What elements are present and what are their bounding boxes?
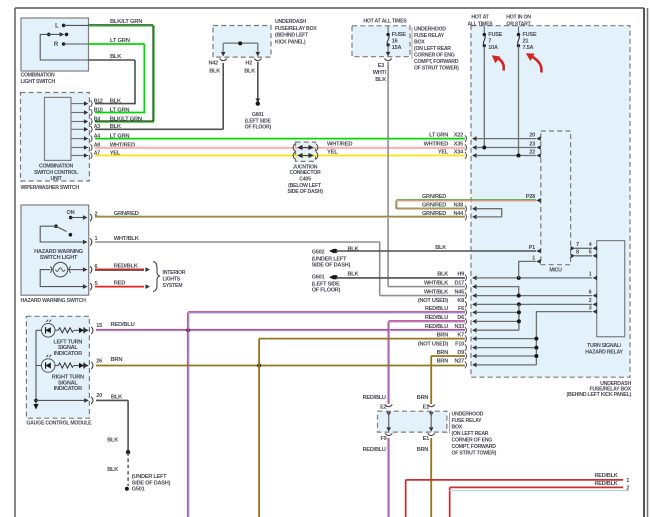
- combination light switch box: [21, 18, 89, 71]
- connector X34 YEL row: [465, 152, 467, 159]
- control unit pin A3 (BLK): [71, 128, 84, 130]
- svg-text:GAUGE CONTROL MODULE: GAUGE CONTROL MODULE: [26, 421, 92, 427]
- wire H9 row to relay pin 1: [476, 277, 592, 279]
- svg-text:10A: 10A: [488, 45, 498, 51]
- svg-text:COMPT, FORWARD: COMPT, FORWARD: [452, 444, 497, 450]
- wire relay pin 3 to BRN net: [536, 312, 592, 365]
- gauge control module pin 15: [91, 327, 93, 334]
- svg-text:BLK: BLK: [107, 467, 118, 473]
- svg-text:FUSE RELAY: FUSE RELAY: [414, 33, 445, 39]
- wire BLK H2 to ground G601: [257, 62, 259, 99]
- svg-text:FUSE/RELAY BOX: FUSE/RELAY BOX: [275, 26, 317, 32]
- interior lights system brace: [153, 262, 160, 292]
- red annotation arrow to fuse 7: [499, 59, 504, 71]
- wire MICU pin 7 to relay pin 4: [575, 247, 592, 249]
- wire N27 row: [476, 364, 536, 366]
- svg-text:BRN: BRN: [437, 332, 449, 338]
- svg-text:26: 26: [96, 358, 102, 364]
- svg-text:BLK: BLK: [110, 54, 122, 60]
- svg-text:N42: N42: [208, 61, 218, 67]
- svg-text:(BEHIND LEFT: (BEHIND LEFT: [275, 33, 309, 39]
- MICU pin 23: [536, 145, 541, 150]
- svg-text:C405: C405: [299, 177, 311, 183]
- hazard switch feed: [40, 226, 83, 242]
- svg-text:22: 22: [529, 150, 535, 156]
- svg-text:K7: K7: [457, 332, 464, 338]
- wire BLK G601 to H9: [336, 277, 465, 279]
- control unit pin A7 (YEL): [71, 155, 84, 157]
- wire RED/BLU D6 to underhood box E2: [389, 320, 465, 322]
- svg-text:YEL: YEL: [327, 149, 338, 155]
- svg-text:GRN/RED: GRN/RED: [114, 211, 139, 217]
- svg-text:WHT/: WHT/: [373, 70, 387, 76]
- underdash fuse/relay box (top middle dashed): [213, 26, 271, 58]
- svg-text:2: 2: [95, 212, 98, 218]
- fuse 21 7.5A: [518, 26, 520, 34]
- connector E1 bottom: [428, 433, 435, 435]
- svg-text:BRN: BRN: [437, 350, 449, 356]
- svg-text:HAZARD RELAY: HAZARD RELAY: [585, 350, 623, 356]
- MICU pin P28: [536, 198, 541, 203]
- wire RED/BLK 2: [450, 486, 624, 488]
- svg-text:5: 5: [589, 250, 592, 256]
- wire WHT/RED A8 to X35: [95, 146, 465, 148]
- red annotation arrow to fuse 21: [532, 57, 542, 73]
- svg-text:H2: H2: [245, 61, 252, 67]
- svg-text:BLK: BLK: [348, 272, 359, 278]
- gauge control module pin 20: [91, 397, 93, 404]
- svg-text:BRN: BRN: [437, 359, 449, 365]
- wire N33 row: [476, 329, 519, 331]
- wire RED/BLU F9 to front lights: [387, 438, 389, 517]
- gauge control module pin 26: [91, 362, 93, 369]
- connector H9 BLK row: [465, 275, 467, 282]
- svg-text:SIDE OF DASH): SIDE OF DASH): [312, 263, 351, 269]
- hazard switch pin 5: [90, 283, 92, 290]
- svg-text:20: 20: [96, 393, 102, 399]
- MICU pin P1: [536, 249, 541, 254]
- svg-text:BLK: BLK: [437, 272, 448, 278]
- connector F10 (NOT USED) row: [465, 344, 467, 351]
- gauge control module dashed box: [26, 316, 89, 418]
- svg-text:FUSE: FUSE: [523, 32, 537, 38]
- svg-text:P1: P1: [529, 245, 535, 251]
- svg-text:BOX: BOX: [414, 40, 425, 46]
- svg-text:7: 7: [488, 39, 491, 45]
- svg-text:HOT IN ON: HOT IN ON: [506, 15, 531, 21]
- svg-text:L: L: [55, 23, 59, 29]
- svg-text:OF STRUT TOWER): OF STRUT TOWER): [452, 451, 497, 457]
- control unit pin A4 (LT GRN): [71, 138, 84, 140]
- svg-text:B10: B10: [94, 107, 103, 113]
- svg-text:20: 20: [529, 133, 535, 139]
- svg-text:LIGHTS: LIGHTS: [163, 277, 181, 283]
- wire row 22 inside box: [476, 155, 536, 157]
- svg-text:OF FLOOR): OF FLOOR): [245, 125, 272, 131]
- svg-text:7.5A: 7.5A: [523, 45, 534, 51]
- svg-text:N27: N27: [454, 359, 464, 365]
- wire GRN/RED hazard pin2 to N44: [95, 215, 465, 217]
- wire K7 row: [476, 338, 536, 340]
- wire D17 to N45 jumper: [476, 287, 519, 296]
- svg-text:RED/BLU: RED/BLU: [363, 447, 386, 453]
- svg-text:G502: G502: [312, 250, 325, 256]
- relay pin 3: [593, 309, 598, 314]
- svg-text:SWITCH LIGHT: SWITCH LIGHT: [40, 255, 78, 261]
- wire RED/BLK 1: [406, 479, 624, 481]
- svg-text:N38: N38: [453, 203, 463, 209]
- MICU pin 22: [536, 153, 541, 158]
- relay pin 6: [593, 293, 598, 298]
- svg-text:INTERIOR: INTERIOR: [163, 270, 186, 276]
- svg-text:(NOT USED): (NOT USED): [418, 298, 449, 304]
- svg-text:B12: B12: [94, 98, 103, 104]
- MICU box U1: [541, 131, 571, 265]
- svg-text:UNDERHOOD: UNDERHOOD: [452, 412, 484, 418]
- svg-text:SIDE OF DASH): SIDE OF DASH): [132, 480, 171, 486]
- wire LT GRN light switch R to B10: [89, 43, 145, 45]
- fuse 16 15A: [387, 26, 389, 35]
- svg-text:GRN/RED: GRN/RED: [422, 211, 446, 217]
- svg-text:(UNDER LEFT: (UNDER LEFT: [132, 474, 167, 480]
- wire D9 row: [476, 355, 536, 357]
- gauge module ground bus: [35, 330, 37, 404]
- svg-text:WHT/RED: WHT/RED: [327, 141, 352, 147]
- turn signal/hazard relay box: [597, 241, 625, 337]
- svg-text:BLK: BLK: [244, 68, 255, 74]
- svg-text:TURN SIGNAL/: TURN SIGNAL/: [587, 343, 622, 349]
- svg-text:BLK: BLK: [375, 77, 386, 83]
- connector F9: [385, 433, 392, 435]
- wire RED/BLK to interior lights: [95, 268, 144, 270]
- svg-text:E1: E1: [423, 436, 429, 442]
- control unit pin B10 (LT GRN): [71, 112, 84, 114]
- svg-text:WHT/BLK: WHT/BLK: [114, 236, 140, 242]
- MICU pin 20: [536, 136, 541, 141]
- svg-text:ON: ON: [67, 210, 75, 216]
- svg-text:N45: N45: [454, 289, 464, 295]
- ground G601 floor: [256, 98, 261, 103]
- junction connector C405 contact row y=147.5: [293, 144, 295, 151]
- wire WHT/BLK hazard pin1 to N45: [95, 241, 380, 243]
- svg-text:(ON LEFT REAR: (ON LEFT REAR: [414, 46, 451, 52]
- svg-text:G601: G601: [252, 112, 264, 118]
- svg-text:1: 1: [626, 478, 629, 484]
- svg-text:HOT AT ALL TIMES: HOT AT ALL TIMES: [363, 19, 407, 25]
- connector D9 BRN row: [465, 353, 467, 360]
- wire LT GRN A4 to X22: [95, 138, 465, 140]
- wire N45 row to relay pin 6: [476, 295, 592, 297]
- svg-text:HAZARD WARNING SWITCH: HAZARD WARNING SWITCH: [21, 298, 87, 304]
- hazard switch pin 2: [90, 214, 92, 221]
- faint box edge bottom right: [450, 490, 629, 492]
- connector E3: [385, 59, 392, 61]
- connector X35 WHT/RED row: [465, 144, 467, 151]
- connector K8 (NOT USED) row: [465, 301, 467, 308]
- svg-text:BLK/LT GRN: BLK/LT GRN: [110, 19, 142, 25]
- svg-text:GRN/RED: GRN/RED: [422, 194, 446, 200]
- control unit pin B12 (BLK): [71, 103, 84, 105]
- svg-text:B4: B4: [94, 116, 100, 122]
- relay pin 1: [593, 276, 598, 281]
- connector F6 RED/BLU row: [465, 309, 467, 316]
- svg-text:15A: 15A: [392, 45, 402, 51]
- hazard switch lamp: [53, 262, 68, 277]
- light switch feed wire: [40, 34, 88, 60]
- svg-text:COMPT, FORWARD: COMPT, FORWARD: [414, 59, 459, 65]
- svg-text:BLK: BLK: [435, 245, 446, 251]
- svg-text:K8: K8: [457, 298, 464, 304]
- svg-text:UNDERHOOD: UNDERHOOD: [414, 27, 446, 33]
- svg-text:INDICATOR: INDICATOR: [54, 386, 83, 392]
- underhood fuse relay box (bottom dashed): [378, 411, 447, 432]
- wire BLK light switch to B12: [89, 59, 136, 61]
- svg-text:2: 2: [589, 298, 592, 304]
- svg-text:CONNECTOR: CONNECTOR: [289, 170, 321, 176]
- combination switch control unit dashed box (wiper/washer switch): [21, 93, 90, 182]
- svg-text:6: 6: [589, 289, 592, 295]
- svg-text:COMBINATION: COMBINATION: [21, 73, 56, 79]
- wire RED/BLU net vertical K8-F6-D6-N33: [518, 304, 520, 330]
- svg-text:F10: F10: [455, 341, 464, 347]
- wire D6 row: [476, 320, 519, 322]
- svg-text:SWITCH CONTROL: SWITCH CONTROL: [34, 170, 79, 176]
- wire RED/BLU gauge pin15 to N33: [96, 329, 465, 331]
- fuse 7 10A: [483, 26, 485, 34]
- svg-text:LT GRN: LT GRN: [110, 107, 130, 113]
- wire BRN E1 to front lights: [430, 438, 432, 517]
- connector D6 RED/BLU row: [465, 318, 467, 325]
- svg-text:BRN: BRN: [417, 447, 429, 453]
- left turn signal indicator LED: [36, 329, 41, 331]
- svg-text:FUSE RELAY: FUSE RELAY: [452, 418, 483, 424]
- svg-text:LT GRN: LT GRN: [429, 132, 448, 138]
- svg-text:UNDERDASH: UNDERDASH: [275, 19, 306, 25]
- svg-text:INDICATOR: INDICATOR: [54, 351, 83, 357]
- svg-text:15: 15: [96, 323, 102, 329]
- wire BLK/LT GRN light switch L to B4: [89, 24, 153, 26]
- connector N27 BRN row: [465, 362, 467, 369]
- svg-text:7: 7: [576, 242, 579, 248]
- svg-text:8: 8: [576, 250, 579, 256]
- svg-text:RED/BLK: RED/BLK: [594, 473, 617, 479]
- svg-text:SIDE OF DASH): SIDE OF DASH): [287, 189, 323, 195]
- svg-text:BLK: BLK: [209, 68, 220, 74]
- wire MICU pin 1 jumper: [519, 261, 536, 278]
- svg-text:KICK PANEL): KICK PANEL): [275, 39, 306, 45]
- svg-text:WHT/BLK: WHT/BLK: [424, 289, 448, 295]
- svg-text:X22: X22: [454, 132, 463, 138]
- hazard switch arm: [54, 224, 58, 228]
- svg-text:WIPER/WASHER SWITCH: WIPER/WASHER SWITCH: [21, 185, 80, 191]
- svg-text:BRN: BRN: [417, 395, 429, 401]
- wire MICU pin 8 to relay pin 5: [575, 255, 592, 257]
- wire K8 row to relay pin 2: [476, 303, 592, 305]
- svg-text:RED/BLK: RED/BLK: [594, 481, 617, 487]
- svg-text:BOX: BOX: [452, 425, 463, 431]
- svg-text:ALL TIMES: ALL TIMES: [467, 21, 493, 27]
- wire YEL A7 to X34: [95, 155, 465, 157]
- gauge module pin 20 wire: [36, 399, 85, 401]
- svg-text:FUSE: FUSE: [392, 32, 406, 38]
- underdash fuse/relay box (large dashed box right): [471, 26, 630, 378]
- svg-text:GRN/RED: GRN/RED: [422, 203, 446, 209]
- connector N44: [465, 214, 467, 221]
- control unit pin A8 (WHT/RED): [71, 147, 84, 149]
- svg-text:(BEHIND LEFT KICK PANEL): (BEHIND LEFT KICK PANEL): [566, 392, 631, 398]
- svg-text:CORNER OF ENG: CORNER OF ENG: [414, 53, 455, 59]
- wire RED/BLU F6 branch: [188, 311, 465, 313]
- wire F10 row: [476, 347, 536, 349]
- connector X22 LT GRN row: [465, 135, 467, 142]
- wire fuse 21 to row 22: [518, 46, 520, 156]
- svg-text:WHT/RED: WHT/RED: [424, 141, 449, 147]
- svg-text:RED: RED: [114, 280, 126, 286]
- junction connector C405 contact row y=155.5: [293, 152, 295, 159]
- svg-text:BLK: BLK: [107, 437, 118, 443]
- wire BRN D9 to underhood box E1: [431, 355, 465, 357]
- hazard switch pin 6: [90, 266, 92, 273]
- svg-text:RED/BLK: RED/BLK: [114, 263, 139, 269]
- wire WHT/BLK E3 down to D17: [387, 62, 389, 287]
- wire RED/BLU down to rear lights: [187, 330, 189, 517]
- svg-text:BRN: BRN: [111, 357, 123, 363]
- svg-text:G501: G501: [132, 487, 145, 493]
- svg-text:HOT AT: HOT AT: [471, 15, 489, 21]
- svg-text:SYSTEM: SYSTEM: [163, 283, 183, 289]
- svg-text:RED/BLU: RED/BLU: [363, 395, 386, 401]
- svg-text:OF FLOOR): OF FLOOR): [312, 288, 341, 294]
- hazard lamp to pin5: [40, 270, 83, 287]
- svg-text:MICU: MICU: [549, 268, 562, 274]
- wire BRN gauge pin26 to N27: [96, 365, 465, 367]
- junction connector C405 box: [296, 142, 316, 161]
- svg-text:H9: H9: [457, 272, 464, 278]
- hazard warning switch box: [21, 205, 89, 295]
- light switch wiper arm: [47, 33, 51, 37]
- border frame: [15, 7, 644, 9]
- svg-text:(LEFT SIDE: (LEFT SIDE: [245, 118, 272, 124]
- svg-text:16: 16: [392, 39, 398, 45]
- connector N45 WHT/BLK row: [465, 292, 467, 299]
- svg-text:OF STRUT TOWER): OF STRUT TOWER): [414, 66, 459, 72]
- jumper N38 to N44 inside box: [476, 209, 502, 217]
- wire GRN/RED N38 jumper to P28: [397, 199, 537, 201]
- wire fuse 7 to row 23: [483, 46, 485, 148]
- underdash box internal wiring N42 H2: [223, 42, 258, 44]
- relay pin 2: [593, 302, 598, 307]
- hazard switch pin 1: [90, 238, 92, 245]
- connector N33 RED/BLU row: [465, 327, 467, 334]
- svg-text:LT GRN: LT GRN: [110, 38, 130, 44]
- svg-text:LIGHT SWITCH: LIGHT SWITCH: [21, 79, 56, 85]
- svg-text:(NOT USED): (NOT USED): [418, 341, 449, 347]
- svg-text:N44: N44: [453, 211, 464, 217]
- svg-text:D9: D9: [457, 350, 464, 356]
- svg-text:YEL: YEL: [438, 149, 449, 155]
- wire BLK G502 to MICU P1: [336, 250, 536, 252]
- wire F6 row: [476, 311, 519, 313]
- connector K7 BRN row: [465, 335, 467, 342]
- wire BRN down to rear lights: [258, 366, 260, 517]
- wire BLK A3 to underdash box N42: [95, 128, 223, 130]
- svg-text:1: 1: [589, 272, 592, 278]
- connector H2: [254, 59, 261, 61]
- svg-text:1: 1: [532, 255, 535, 261]
- svg-text:21: 21: [523, 39, 529, 45]
- svg-text:UNIT: UNIT: [50, 176, 62, 182]
- svg-text:D17: D17: [454, 280, 464, 286]
- svg-text:P28: P28: [526, 194, 535, 200]
- svg-text:X35: X35: [454, 141, 463, 147]
- svg-text:COMBINATION: COMBINATION: [39, 163, 74, 169]
- connector N38: [465, 205, 467, 212]
- connector D17 WHT/BLK row: [465, 283, 467, 290]
- svg-text:F9: F9: [380, 436, 386, 442]
- connector N42: [220, 59, 227, 61]
- underhood fuse relay box (fuse 16 dashed box): [352, 26, 410, 57]
- right turn signal indicator LED: [36, 365, 41, 367]
- wire row 20 inside box: [476, 138, 536, 140]
- svg-text:RED/BLU: RED/BLU: [111, 322, 135, 328]
- svg-text:E3: E3: [378, 63, 384, 69]
- wire row 23 inside box: [476, 147, 536, 149]
- svg-text:BLK: BLK: [110, 98, 122, 104]
- svg-text:BLK/LT GRN: BLK/LT GRN: [110, 116, 142, 122]
- svg-text:G601: G601: [312, 275, 325, 281]
- svg-text:FUSE: FUSE: [488, 32, 502, 38]
- svg-text:3: 3: [589, 305, 592, 311]
- svg-text:WHT/BLK: WHT/BLK: [424, 280, 448, 286]
- wire RED to interior lights: [95, 286, 144, 288]
- wire BRN K7 branch: [259, 338, 465, 340]
- svg-text:CORNER OF ENG: CORNER OF ENG: [452, 438, 493, 444]
- svg-text:23: 23: [529, 142, 535, 148]
- control unit pin B4 (BLK/LT GRN): [71, 121, 84, 123]
- svg-text:(ON LEFT REAR: (ON LEFT REAR: [452, 431, 489, 437]
- svg-text:X34: X34: [454, 149, 464, 155]
